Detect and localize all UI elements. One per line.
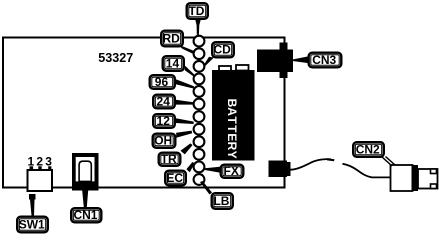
svg-text:CN2: CN2 — [356, 142, 380, 156]
svg-text:SW1: SW1 — [19, 217, 45, 231]
svg-text:CD: CD — [214, 43, 232, 57]
svg-text:FX: FX — [224, 164, 239, 178]
svg-text:EC: EC — [166, 171, 183, 185]
svg-text:TD: TD — [188, 4, 204, 18]
svg-text:12: 12 — [157, 114, 171, 128]
svg-text:14: 14 — [166, 56, 180, 70]
svg-text:CN1: CN1 — [73, 208, 97, 222]
svg-text:RD: RD — [163, 31, 181, 45]
svg-text:CN3: CN3 — [312, 53, 336, 67]
svg-text:96: 96 — [155, 75, 169, 89]
svg-text:LB: LB — [213, 194, 229, 208]
svg-text:OH: OH — [154, 134, 172, 148]
svg-text:24: 24 — [157, 94, 171, 108]
svg-text:TR: TR — [161, 152, 177, 166]
